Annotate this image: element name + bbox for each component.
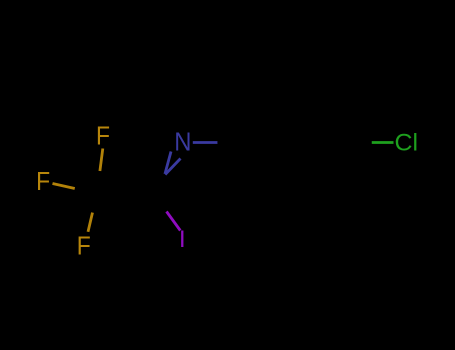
crossed double bond C2=N line 2 : black half (C2 side): [154, 175, 165, 187]
svg-text:N: N: [174, 127, 191, 157]
bond C1-F3 : black half: [93, 194, 98, 213]
svg-text:F: F: [36, 166, 50, 196]
bond C1-F3 : goldenrod half: [88, 213, 93, 232]
bond N-ring : black half: [217, 141, 242, 144]
bond C2-I : black half: [157, 196, 167, 212]
bond C1-F1 : black half: [97, 171, 100, 194]
bond ring-Cl : green half: [372, 141, 394, 144]
svg-text:Cl: Cl: [395, 130, 419, 157]
svg-text:I: I: [179, 226, 186, 253]
aromatic inner line L-TL: [251, 105, 273, 143]
bond ring-Cl : black half: [350, 141, 372, 144]
benzene ring (carbon skeleton, near-black): [242, 95, 350, 189]
bond C1-F1 : goldenrod half: [100, 149, 103, 172]
bond C1-C2 (black skeleton): [97, 194, 157, 197]
svg-text:F: F: [96, 120, 110, 150]
aromatic inner line TR-R: [320, 105, 342, 143]
bond N-ring : blue half: [193, 141, 218, 144]
crossed double bond C2=N line 1 : blue half (N side): [165, 152, 171, 175]
bond C1-F2 : black half: [75, 189, 97, 194]
bond C2-I : purple half: [167, 212, 181, 231]
bond C1-F2 : goldenrod half: [53, 184, 75, 189]
svg-text:F: F: [77, 231, 91, 261]
aromatic inner line BR-BL: [276, 182, 316, 185]
crossed double bond C2=N line 1 : black half (C2 side): [159, 174, 165, 196]
crossed double bond C2=N line 2 : blue half (N side): [165, 159, 180, 175]
